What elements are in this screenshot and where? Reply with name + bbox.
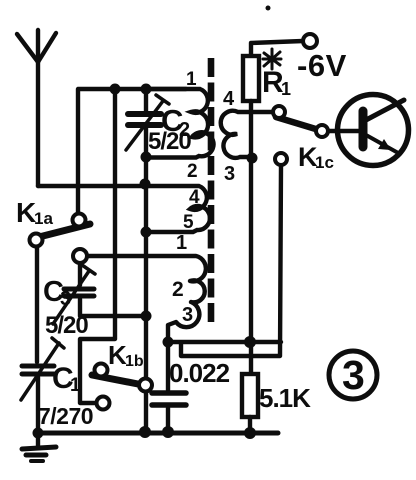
svg-text:5: 5: [183, 212, 194, 233]
svg-text:5.1K: 5.1K: [259, 383, 311, 413]
svg-text:4: 4: [189, 187, 200, 208]
svg-text:2: 2: [172, 278, 184, 301]
svg-text:3: 3: [224, 163, 235, 185]
svg-text:3: 3: [342, 352, 365, 398]
svg-text:1b: 1b: [125, 353, 144, 370]
svg-text:1c: 1c: [315, 153, 334, 172]
svg-text:5/20: 5/20: [45, 312, 88, 339]
svg-text:1: 1: [176, 232, 187, 254]
svg-text:1: 1: [186, 69, 197, 90]
svg-text:3: 3: [60, 288, 71, 310]
svg-text:1: 1: [70, 375, 81, 396]
svg-text:5/20: 5/20: [148, 128, 191, 155]
svg-text:3: 3: [182, 304, 193, 326]
svg-text:1a: 1a: [34, 209, 53, 228]
svg-text:4: 4: [223, 88, 235, 110]
svg-text:-6V: -6V: [297, 48, 347, 83]
svg-text:2: 2: [187, 161, 198, 182]
svg-text:1: 1: [281, 79, 291, 99]
svg-text:7/270: 7/270: [38, 403, 93, 429]
svg-text:0.022: 0.022: [169, 358, 230, 388]
